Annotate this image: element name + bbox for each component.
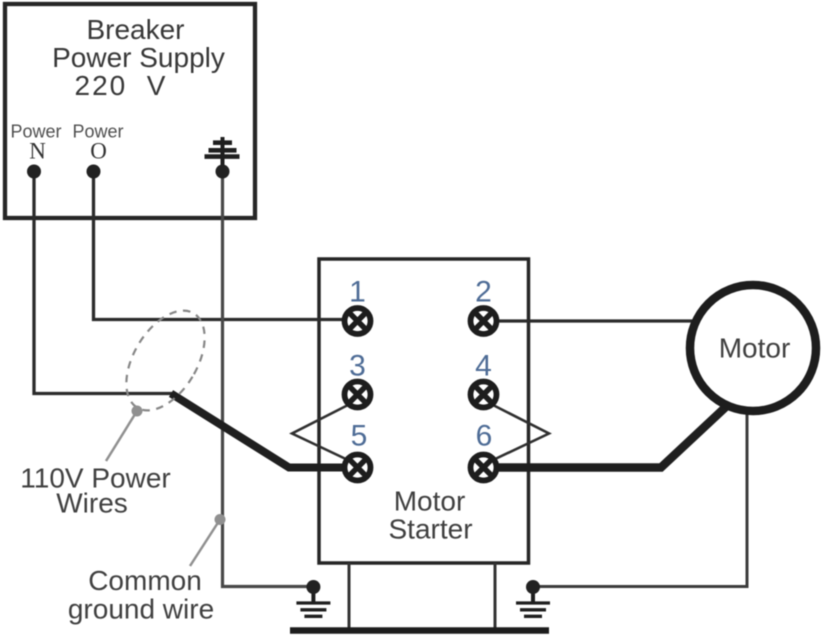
- pedestal right leg: [494, 563, 497, 629]
- jumper chevron terminals 3-5: [292, 405, 349, 461]
- thick 110V wire to terminal 5: [171, 394, 358, 468]
- node left earth: [306, 580, 320, 594]
- svg-text:Motor: Motor: [719, 333, 791, 364]
- jumper chevron terminals 4-6: [492, 405, 549, 461]
- motor M1: [690, 285, 816, 411]
- svg-text:Motor: Motor: [394, 486, 466, 517]
- svg-text:Breaker: Breaker: [86, 14, 184, 45]
- svg-text:Starter: Starter: [388, 514, 472, 545]
- terminal 2: [471, 308, 497, 334]
- svg-text:Common: Common: [88, 565, 202, 596]
- wire motor bottom to right earth: [533, 400, 747, 587]
- leader common ground wire: [190, 520, 220, 567]
- svg-text:ground wire: ground wire: [68, 594, 214, 625]
- terminal 5: [345, 455, 371, 481]
- node Power O: [87, 165, 101, 179]
- thick wire terminal 6 to motor: [484, 403, 731, 468]
- wire from Power N down and right: [34, 172, 172, 394]
- svg-text:Wires: Wires: [56, 488, 128, 519]
- svg-text:3: 3: [349, 350, 366, 383]
- svg-text:5: 5: [351, 420, 368, 453]
- svg-text:4: 4: [475, 350, 492, 383]
- breaker ground symbol: [205, 137, 240, 168]
- svg-text:O: O: [90, 139, 107, 164]
- ground bus bar: [290, 627, 549, 634]
- breaker power supply box: [5, 4, 255, 218]
- svg-text:N: N: [29, 139, 46, 164]
- svg-text:220 V: 220 V: [75, 70, 168, 101]
- svg-text:1: 1: [349, 276, 366, 309]
- terminal 4: [471, 382, 497, 408]
- motor starter box: [319, 259, 529, 563]
- terminal 3: [345, 382, 371, 408]
- node Power N: [27, 165, 41, 179]
- wire terminal 2 to motor: [484, 319, 701, 322]
- terminal 6: [471, 455, 497, 481]
- right earth ground: [516, 585, 550, 616]
- node breaker ground: [216, 165, 230, 179]
- common ground wire vertical and to left earth: [223, 172, 309, 587]
- dashed loop 110V wires: [110, 297, 221, 424]
- node right earth: [526, 580, 540, 594]
- left earth ground: [296, 585, 330, 616]
- pedestal left leg: [348, 563, 351, 629]
- terminal 1: [345, 308, 371, 334]
- leader 110V power wires: [106, 411, 137, 461]
- svg-text:6: 6: [476, 420, 493, 453]
- svg-text:Power Supply: Power Supply: [52, 42, 225, 73]
- svg-text:2: 2: [475, 276, 492, 309]
- wire from Power O down and right to terminal 1: [94, 172, 358, 322]
